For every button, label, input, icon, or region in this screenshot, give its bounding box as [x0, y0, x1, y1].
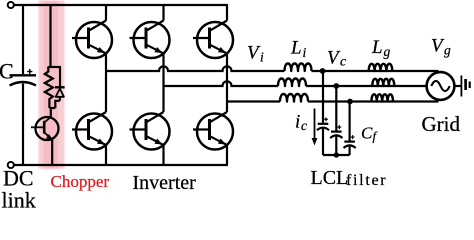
- wire: capacitor Cf1 lower lead: [322, 129, 324, 156]
- transistor T3 (inverter leg3 top): [193, 21, 233, 59]
- svg-text:filter: filter: [346, 172, 387, 189]
- capacitor C top plate: [10, 74, 37, 76]
- wire: phase a Li to grid: [312, 70, 439, 72]
- capacitor Cf1: [317, 117, 329, 130]
- ground symbol: [461, 76, 469, 97]
- wire: phase c Li to grid: [308, 100, 439, 102]
- wire: chopper emitter to bottom rail: [51, 139, 53, 165]
- svg-text:g: g: [444, 43, 451, 58]
- svg-text:c: c: [340, 54, 346, 69]
- inductor Li phase a: [285, 64, 312, 72]
- svg-text:C: C: [361, 124, 373, 143]
- AC source Vg (grid): [427, 72, 455, 100]
- wire: capacitor Cf2 lower lead: [335, 136, 337, 155]
- inductor Lg phase a: [369, 64, 393, 71]
- node Vc phase c junction dot: [347, 99, 353, 105]
- wire: bottom DC rail: [14, 164, 228, 166]
- wire: phase line c: [227, 100, 280, 102]
- diode (freewheel): [55, 67, 65, 101]
- svg-text:link: link: [2, 188, 36, 211]
- chopper highlight band: [39, 1, 65, 170]
- transistor T5 (inverter leg2 bottom): [130, 112, 170, 150]
- svg-text:Inverter: Inverter: [133, 172, 197, 194]
- svg-text:Chopper: Chopper: [51, 172, 110, 191]
- wire: DC-link capacitor branch lower: [22, 84, 24, 166]
- wire: top DC rail: [14, 4, 228, 6]
- capacitor Cf3: [344, 135, 356, 148]
- wire: chopper rejoin: [49, 107, 55, 109]
- transistor T4 (inverter leg1 bottom): [72, 112, 112, 150]
- wire: capacitor star bottom rail: [323, 154, 350, 156]
- wire: capacitor Cf2 upper lead: [335, 86, 337, 131]
- capacitor Cf2: [330, 125, 342, 138]
- capacitor C polarity +: [27, 69, 32, 74]
- transistor T1 (inverter leg1 top): [72, 21, 112, 59]
- wire: chopper split top: [48, 66, 61, 68]
- wire: DC-link capacitor branch upper: [22, 5, 24, 74]
- wire: leg2 vertical segments: [162, 5, 164, 165]
- wire: capacitor Cf3 lower lead: [349, 146, 351, 155]
- wire: capacitor Cf1 upper lead: [322, 71, 324, 123]
- inductor Li phase c: [280, 94, 308, 102]
- svg-text:i: i: [260, 50, 264, 65]
- svg-text:L: L: [290, 38, 302, 59]
- transistor T2 (inverter leg2 top): [130, 21, 170, 59]
- svg-text:i: i: [303, 45, 307, 60]
- inductor Lg phase b: [372, 79, 394, 86]
- terminal: DC- input: [8, 162, 14, 168]
- svg-text:LCL: LCL: [311, 167, 349, 189]
- svg-text:i: i: [295, 112, 300, 133]
- wire: phase b Li to grid: [306, 85, 428, 87]
- node Vc phase b junction dot: [333, 83, 339, 89]
- wire: grid to earth: [454, 85, 460, 87]
- wire: leg1 vertical segments: [105, 5, 107, 165]
- wire: phase line b with hop: [164, 81, 279, 86]
- node Vc phase a junction dot: [320, 68, 326, 74]
- inductor Lg phase c: [371, 94, 393, 101]
- wire: chopper branch from top rail: [49, 5, 51, 67]
- svg-text:C: C: [0, 59, 14, 84]
- svg-text:Grid: Grid: [422, 112, 461, 136]
- terminal: DC+ input: [8, 2, 14, 8]
- inductor Li phase b: [278, 79, 306, 87]
- wire: capacitor Cf3 upper lead: [349, 102, 351, 141]
- transistor T6 (inverter leg3 bottom): [193, 112, 233, 150]
- wire: chopper transistor collector drop: [50, 107, 52, 117]
- resistor (brake) zigzag: [45, 67, 53, 109]
- svg-text:L: L: [371, 37, 383, 58]
- node: star point junction dot: [334, 152, 339, 157]
- svg-text:c: c: [301, 118, 307, 133]
- current arrow ic: [312, 109, 318, 146]
- wire: phase line a with hops: [106, 66, 285, 71]
- wire: diode bottom jog: [55, 101, 60, 108]
- wire: leg3 vertical segments: [226, 5, 228, 165]
- capacitor C curved plate: [10, 82, 37, 86]
- svg-text:g: g: [384, 44, 391, 59]
- transistor Q chopper: [31, 117, 59, 140]
